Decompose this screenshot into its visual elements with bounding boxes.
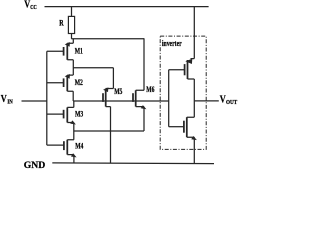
- wire inverter gate bus: [168, 70, 170, 127]
- svg-text:V: V: [1, 94, 7, 105]
- label VCC: [24, 0, 37, 11]
- label R: [59, 19, 64, 28]
- label M4: [75, 143, 84, 151]
- wire gate line M5 M6 to inverter input: [73, 100, 169, 102]
- inverter PMOS transistor: [169, 59, 195, 79]
- svg-text:CC: CC: [30, 4, 37, 11]
- wire M6 drain vertical: [143, 38, 145, 90]
- VCC rail (top): [45, 6, 209, 8]
- svg-text:R: R: [59, 19, 64, 28]
- wire M2 source to node A (M5 M6 gates): [72, 91, 74, 101]
- transistor M2: [47, 74, 73, 91]
- label M1: [75, 48, 84, 56]
- svg-text:M5: M5: [114, 88, 123, 96]
- svg-text:M6: M6: [146, 86, 155, 94]
- label inverter: [162, 38, 182, 49]
- transistor M6: [133, 90, 146, 109]
- svg-text:M3: M3: [75, 111, 84, 119]
- svg-text:M1: M1: [75, 48, 84, 56]
- label M2: [75, 79, 84, 87]
- label M3: [75, 111, 84, 119]
- svg-text:GND: GND: [24, 160, 46, 171]
- svg-text:inverter: inverter: [162, 38, 182, 49]
- wire inverter PMOS source to NMOS drain (output node): [193, 79, 195, 117]
- wire VOUT: [194, 100, 219, 102]
- inverter NMOS transistor: [169, 117, 197, 140]
- transistor M5: [103, 87, 113, 106]
- svg-text:M2: M2: [75, 79, 84, 87]
- resistor R: [68, 16, 74, 33]
- transistor M1: [47, 42, 74, 60]
- wire M3 source to M6 source: [74, 107, 144, 131]
- transistor M3: [47, 107, 76, 124]
- transistor M4: [47, 140, 77, 158]
- svg-text:M4: M4: [75, 143, 84, 151]
- label M5: [114, 88, 123, 96]
- wire VCC drop to inverter PMOS: [193, 7, 195, 59]
- wire resistor top lead: [71, 7, 73, 17]
- wire gate bus M1-M4: [46, 51, 48, 145]
- wire node R to M6 drain: [71, 38, 144, 40]
- wire M1 source to M2 drain: [72, 60, 74, 75]
- wire M4 source to ground: [73, 155, 75, 164]
- svg-text:V: V: [24, 0, 30, 11]
- wire resistor bottom lead: [71, 34, 73, 39]
- wire node A to M3 drain, M3 source to M4 drain: [73, 101, 75, 140]
- wire M1 drain: [72, 39, 74, 43]
- wire VIN input: [22, 100, 47, 102]
- label M6: [146, 86, 155, 94]
- inverter dashed box: [160, 36, 206, 149]
- label VOUT: [220, 95, 237, 106]
- wire M1 source to M5 drain: [73, 68, 113, 89]
- ground rail: [52, 162, 214, 165]
- label VIN: [1, 94, 13, 105]
- svg-text:OUT: OUT: [226, 99, 237, 106]
- svg-text:IN: IN: [7, 99, 12, 106]
- wire inverter NMOS source to ground: [193, 137, 195, 164]
- svg-text:V: V: [220, 95, 226, 106]
- wire M5 source to ground: [110, 107, 112, 164]
